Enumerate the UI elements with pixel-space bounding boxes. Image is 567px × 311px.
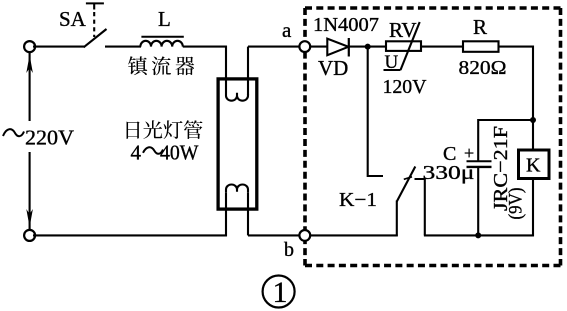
wire: RV to R xyxy=(421,46,464,48)
arrowhead up xyxy=(26,55,33,73)
wire: top rail from source to switch xyxy=(33,46,84,48)
lamp top filament xyxy=(226,93,248,101)
K-1 blade tick xyxy=(404,177,412,180)
wire: switch to inductor xyxy=(105,46,141,48)
wire: bottom rail source to lamp xyxy=(33,234,227,236)
diode VD cathode bar xyxy=(348,38,350,57)
wire: lamp to node b xyxy=(248,234,300,236)
wire: junction to capacitor top xyxy=(478,120,533,161)
figure number circled 1 xyxy=(263,276,295,308)
svg-text:a: a xyxy=(282,18,292,42)
lamp bottom-left lead xyxy=(225,193,227,237)
varistor RV body xyxy=(386,41,421,51)
lamp bottom-right lead xyxy=(247,193,249,236)
svg-text:820Ω: 820Ω xyxy=(459,57,507,79)
dashed starter unit box xyxy=(305,6,561,10)
lamp top-left lead xyxy=(225,46,227,94)
K-1 right contact xyxy=(415,179,425,235)
svg-text:b: b xyxy=(284,239,294,261)
varistor RV diagonal xyxy=(401,22,420,70)
wire: inductor to lamp left lead xyxy=(183,46,227,48)
svg-text:SA: SA xyxy=(59,7,87,31)
lamp top-right lead xyxy=(247,47,249,95)
capacitor C bottom plate xyxy=(467,166,492,168)
wire: node b to K-1 xyxy=(310,234,398,236)
K-1 blade xyxy=(397,167,416,202)
node b xyxy=(299,230,310,241)
lamp bottom filament xyxy=(226,184,248,192)
varistor RV foot / U underline xyxy=(384,69,401,71)
arrowhead down xyxy=(26,209,33,227)
svg-text:120V: 120V xyxy=(383,76,428,98)
switch SA actuator T-bar xyxy=(86,2,104,4)
label 日光灯管 (fluorescent tube) xyxy=(127,121,140,138)
svg-text:+: + xyxy=(464,143,474,163)
svg-text:K−1: K−1 xyxy=(339,189,377,211)
svg-text:330μ: 330μ xyxy=(423,162,475,184)
wire: K-1 right contact to relay bottom xyxy=(424,234,534,236)
inductor L humps xyxy=(140,41,182,47)
wire: R to right corner and down xyxy=(499,47,534,150)
junction dot after diode xyxy=(365,44,371,50)
wire: node a to diode xyxy=(310,46,328,48)
wire: relay bottom to rail xyxy=(532,178,534,236)
switch SA actuator dashed link xyxy=(93,12,95,37)
svg-text:L: L xyxy=(158,7,171,31)
svg-text:VD: VD xyxy=(318,56,348,80)
wire: capacitor bottom to rail xyxy=(477,167,479,236)
resistor R body xyxy=(463,41,499,52)
label ~220V xyxy=(3,129,24,136)
svg-text:R: R xyxy=(473,15,487,39)
svg-text:220V: 220V xyxy=(25,126,74,150)
AC source ~220V terminal (top) xyxy=(24,41,35,52)
wire: source vertical with arrows xyxy=(29,53,31,121)
wire: junction down to K-1 fixed contact xyxy=(368,47,383,176)
capacitor C top plate xyxy=(467,160,492,162)
label 镇流器 (ballast) xyxy=(128,56,147,75)
inductor L overline xyxy=(141,36,183,38)
diode VD triangle xyxy=(327,39,348,56)
svg-text:RV: RV xyxy=(389,18,417,42)
svg-text:1: 1 xyxy=(273,276,288,309)
node a xyxy=(299,41,310,52)
svg-text:(9V): (9V) xyxy=(506,188,527,220)
svg-text:U: U xyxy=(385,52,399,73)
wire: blade pivot down to bottom rail xyxy=(396,201,398,237)
wire: diode to RV xyxy=(349,46,387,48)
svg-text:40W: 40W xyxy=(160,141,199,165)
relay K box xyxy=(519,150,550,179)
junction dot above relay xyxy=(530,117,536,123)
fluorescent tube body xyxy=(218,79,257,209)
switch SA blade xyxy=(84,29,107,47)
svg-text:K: K xyxy=(526,155,541,177)
junction dot on bottom rail xyxy=(475,232,481,238)
AC source ~220V terminal (bottom) xyxy=(24,230,35,241)
wire: lamp to node a xyxy=(248,46,300,48)
svg-text:1N4007: 1N4007 xyxy=(313,14,379,36)
svg-text:4: 4 xyxy=(131,141,142,165)
